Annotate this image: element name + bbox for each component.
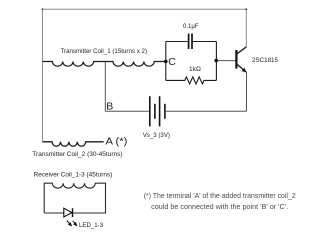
svg-text:B: B bbox=[106, 100, 113, 112]
svg-text:Transmitter Coil_1 (15turns x: Transmitter Coil_1 (15turns x 2) bbox=[61, 48, 148, 55]
svg-text:Vs_3 (3V): Vs_3 (3V) bbox=[143, 132, 170, 139]
svg-text:(*) The terminal 'A' of the ad: (*) The terminal 'A' of the added transm… bbox=[144, 193, 296, 200]
svg-text:Receiver Coil_1-3 (45turns): Receiver Coil_1-3 (45turns) bbox=[34, 171, 113, 178]
svg-text:1kΩ: 1kΩ bbox=[189, 66, 201, 73]
svg-text:could be connected with the po: could be connected with the point 'B' or… bbox=[151, 204, 288, 211]
svg-text:LED_1-3: LED_1-3 bbox=[79, 222, 103, 229]
svg-text:0.1μF: 0.1μF bbox=[183, 23, 199, 30]
svg-text:C: C bbox=[168, 56, 176, 68]
svg-text:2SC1815: 2SC1815 bbox=[252, 57, 278, 64]
svg-text:A (*): A (*) bbox=[106, 136, 128, 148]
svg-text:Transmitter Coil_2 (30-45turns: Transmitter Coil_2 (30-45turns) bbox=[32, 151, 122, 158]
